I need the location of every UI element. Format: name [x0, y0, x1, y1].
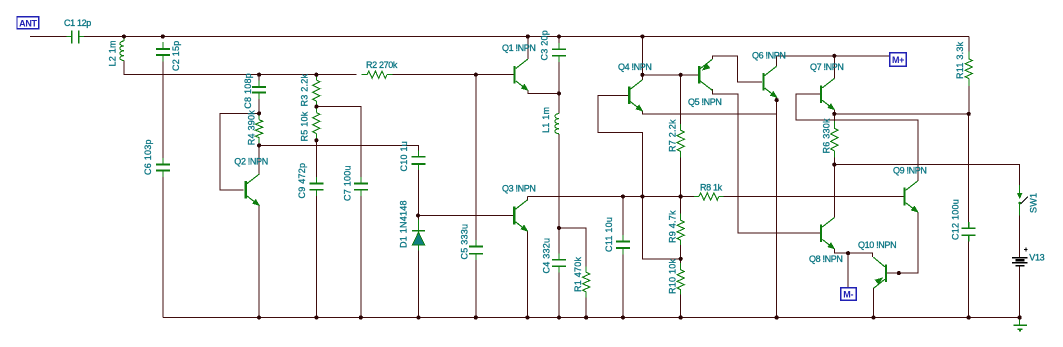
label C3 — [540, 30, 550, 61]
junction dot 30 at (360.3,317) — [359, 315, 363, 319]
label Q9 — [893, 166, 927, 176]
svg-text:C3 20p: C3 20p — [540, 30, 550, 61]
resistor R3 — [313, 76, 320, 106]
label C1 — [64, 18, 91, 28]
label R4 — [246, 110, 256, 146]
junction dot 31 at (418.0,317) — [416, 315, 420, 319]
capacitor C11 — [616, 235, 630, 254]
label R10 — [668, 258, 678, 294]
resistor R8 — [694, 193, 724, 200]
wire Q7 collector riser — [833, 56, 835, 79]
wire L1 bottom to C4 — [558, 134, 560, 259]
label SW1 — [1029, 193, 1039, 213]
transistor Q3 — [513, 200, 527, 231]
transistor Q5 — [698, 59, 712, 90]
wire R8 to Q9 base — [724, 196, 904, 198]
svg-text:Q1 !NPN: Q1 !NPN — [502, 43, 536, 53]
wire R6 bottom to SW1 — [834, 158, 1019, 186]
label L1 — [541, 107, 551, 133]
svg-text:Q2 !NPN: Q2 !NPN — [234, 156, 268, 166]
junction dot 37 at (680.2,317) — [679, 315, 683, 319]
svg-text:R4 390k: R4 390k — [246, 110, 256, 146]
wire ANT to C1 — [30, 36, 72, 38]
wire C3 bottom to node — [558, 57, 560, 94]
junction dot 25 at (833.8,164.1) — [832, 163, 836, 167]
transistor Q2 — [245, 174, 259, 205]
svg-text:Q9 !NPN: Q9 !NPN — [893, 166, 927, 176]
resistor R5 — [313, 108, 320, 139]
wire R1 bottom to bus — [585, 292, 587, 318]
transistor Q10 — [874, 257, 888, 288]
junction dot 29 at (315.9,317) — [314, 315, 318, 319]
label Q4 — [618, 62, 652, 72]
capacitor C7 — [354, 177, 368, 196]
junction dot 32 at (475.3,317) — [474, 315, 478, 319]
resistor R7 — [677, 124, 684, 158]
wire Q6 collector riser — [776, 56, 778, 66]
wire D1 to Q3 base — [419, 215, 514, 217]
resistor R10 — [677, 263, 684, 294]
wire C6 bottom to bottom bus corner — [162, 171, 164, 317]
capacitor C1 — [67, 31, 85, 44]
wire C5 column top — [475, 75, 477, 246]
junction dot 24 at (968.2,113.4) — [967, 112, 971, 116]
svg-text:M+: M+ — [892, 55, 904, 65]
node M- — [841, 288, 857, 300]
svg-text:SW1: SW1 — [1029, 193, 1039, 213]
wire Q4 base jog — [598, 95, 681, 258]
svg-text:ANT: ANT — [19, 18, 37, 28]
wire Q6 emitter to bus — [776, 97, 778, 317]
wire Q8 collector riser — [833, 165, 835, 218]
junction dot 27 at (898.3,272.6) — [897, 271, 901, 275]
junction dot 21 at (776.2,99.6) — [775, 98, 779, 102]
wire bottom bus — [163, 317, 1020, 319]
wire Q7 emitter stub — [833, 110, 835, 121]
junction dot 2 at (162.3,36) — [161, 34, 165, 38]
wire Q3 emitter to bus — [526, 231, 528, 317]
capacitor C5 — [469, 240, 483, 260]
wire C12 bottom to bus — [968, 236, 970, 317]
label Q8 — [809, 254, 843, 264]
node ANT — [17, 17, 39, 29]
wire C10 bottom to D1 — [418, 165, 420, 231]
label D1 — [399, 200, 409, 248]
wire R11 bottom — [968, 86, 970, 114]
label V13 — [1029, 252, 1044, 262]
junction dot 33 at (526.9,317) — [525, 315, 529, 319]
diode D1 — [412, 220, 425, 251]
transistor Q7 — [820, 79, 834, 110]
wire Q4 emitter run — [642, 111, 776, 114]
label R1 — [573, 256, 583, 292]
wire Q8 emitter node — [834, 249, 872, 257]
wire Q5 emitter to Q6 base — [712, 56, 762, 82]
junction dot 18 at (641.9,196.0) — [640, 194, 644, 198]
wire Q1 emitter to C3L1 node — [528, 90, 559, 93]
svg-text:R1 470k: R1 470k — [573, 256, 583, 292]
capacitor C6 — [156, 158, 170, 177]
svg-text:Q6 !NPN: Q6 !NPN — [752, 51, 786, 61]
svg-text:C6 103p: C6 103p — [143, 139, 153, 175]
svg-text:Q8 !NPN: Q8 !NPN — [809, 254, 843, 264]
wire C8-R4 junction segment — [258, 93, 260, 119]
wire Q4 collector riser — [641, 37, 643, 80]
wire C7 bottom to bus — [360, 191, 362, 318]
label Q3 — [502, 183, 536, 193]
wire R3-R5 junction — [315, 101, 317, 113]
label Q2 — [234, 156, 268, 166]
junction dot 4 at (558.5,36) — [557, 34, 561, 38]
wire Q9 emitter to Q10 collector — [899, 212, 918, 273]
svg-text:R6 330k: R6 330k — [822, 118, 832, 154]
label C10 — [399, 141, 409, 172]
svg-text:R2 270k: R2 270k — [366, 60, 398, 70]
junction dot 5 at (641.9,36) — [640, 34, 644, 38]
label C7 — [343, 165, 353, 201]
resistor R6 — [831, 121, 838, 158]
svg-text:C5 333u: C5 333u — [460, 224, 470, 260]
label R8 — [700, 182, 723, 192]
label C4 — [542, 238, 552, 274]
label R11 — [955, 41, 965, 79]
resistor R4 — [256, 115, 263, 143]
wire R3R5 mid to C7 — [316, 107, 360, 183]
wire Q7 base jog — [796, 94, 918, 181]
wire mid bus Q3 to R8 — [527, 196, 694, 198]
label R6 — [822, 118, 832, 154]
wire Q3 collector riser — [526, 197, 528, 201]
capacitor C10 — [412, 151, 426, 171]
transistor Q9 — [903, 181, 917, 212]
junction dot 28 at (258.6,317) — [257, 315, 261, 319]
label C12 — [951, 199, 961, 240]
svg-text:R5 10k: R5 10k — [300, 111, 310, 141]
label C11 — [604, 217, 614, 252]
svg-text:R11 3.3k: R11 3.3k — [955, 41, 965, 79]
wire C3 top — [558, 37, 560, 49]
wire Q10 base stub — [886, 272, 899, 274]
wire R3 top — [315, 75, 317, 80]
wire Q4Q5 base link — [642, 74, 698, 76]
wire R9 segment — [680, 197, 682, 221]
junction dot 39 at (873.1,317) — [872, 315, 876, 319]
svg-text:V13: V13 — [1029, 252, 1044, 262]
junction dot 38 at (776.2,317) — [775, 315, 779, 319]
wire R7 top — [680, 75, 682, 131]
wire R10 bottom — [680, 290, 682, 318]
wire R4 bottom to Q2 collector — [258, 138, 260, 175]
svg-text:C11 10u: C11 10u — [604, 217, 614, 252]
wire node to L1 top — [558, 93, 560, 113]
wire C11 top — [622, 197, 624, 241]
svg-text:Q3 !NPN: Q3 !NPN — [502, 183, 536, 193]
svg-text:C7 100u: C7 100u — [343, 165, 353, 201]
junction dot 40 at (968.2,317) — [967, 315, 971, 319]
capacitor C8 — [252, 81, 266, 99]
svg-text:Q5 !NPN: Q5 !NPN — [688, 97, 722, 107]
inductor L1 — [555, 114, 559, 134]
wire C11 bottom to bus — [622, 249, 624, 318]
junction dot 19 at (680.2,196.0) — [679, 194, 683, 198]
transistor Q8 — [820, 218, 834, 249]
junction dot 22 at (833.8,55.3) — [832, 54, 836, 58]
wire C5 bottom to bus — [475, 254, 477, 318]
label R3 — [300, 73, 310, 106]
label R9 — [668, 210, 678, 243]
label R7 — [668, 119, 678, 152]
junction dot 6 at (258.6,74.2) — [257, 73, 261, 77]
label C8 — [243, 73, 253, 109]
wire Q1 collector riser — [527, 37, 529, 60]
junction dot 3 at (527.3,36) — [526, 34, 530, 38]
resistor R9 — [677, 214, 684, 245]
svg-text:C8 108p: C8 108p — [243, 73, 253, 109]
junction dot 10 at (680.2,74.3) — [679, 73, 683, 77]
capacitor C2 — [156, 42, 170, 62]
label R5 — [300, 111, 310, 141]
junction dot 41 at (1019.2,317) — [1018, 315, 1022, 319]
wire C4 bottom to bus — [558, 267, 560, 318]
label L2 — [108, 40, 118, 66]
junction dot 11 at (258.6,112.9) — [257, 111, 261, 115]
svg-text:M-: M- — [843, 290, 853, 300]
junction dot 8 at (475.3,74.2) — [474, 73, 478, 77]
junction dot 1 at (123.4,36) — [122, 34, 126, 38]
wire C9 bottom to bus — [315, 191, 317, 318]
battery V13 — [1012, 248, 1028, 266]
junction dot 16 at (558.5,227.4) — [557, 226, 561, 230]
wire C12 top — [968, 114, 970, 227]
junction dot 23 at (833.8,113.4) — [832, 112, 836, 116]
wire Q2 base jog — [220, 113, 259, 189]
label Q5 — [688, 97, 722, 107]
capacitor C12 — [962, 222, 976, 242]
junction dot 13 at (258.6,144.9) — [257, 143, 261, 147]
junction dot 17 at (622.4,196.0) — [621, 194, 625, 198]
label C5 — [460, 224, 470, 260]
svg-text:D1 1N4148: D1 1N4148 — [399, 200, 409, 248]
label R2 — [366, 60, 398, 70]
inductor L2 — [120, 37, 124, 61]
svg-text:R10 10k: R10 10k — [668, 258, 678, 294]
resistor R11 — [965, 52, 972, 86]
wire Q7e node right — [834, 113, 968, 115]
svg-text:R3 2.2k: R3 2.2k — [300, 73, 310, 106]
label C9 — [297, 163, 307, 199]
svg-text:Q4 !NPN: Q4 !NPN — [618, 62, 652, 72]
wire L2 bottom to 2nd bus — [124, 61, 357, 75]
wire Q2 emitter to bus — [258, 205, 260, 317]
wire M+ feed — [777, 55, 890, 57]
ground — [1013, 318, 1026, 331]
junction dot 7 at (315.9,74.2) — [314, 73, 318, 77]
wire C8 top — [258, 75, 260, 86]
label Q1 — [502, 43, 536, 53]
junction dot 14 at (315.9,139.8) — [314, 138, 318, 142]
wire Q5 collector to Q8 base — [712, 89, 820, 233]
wire D1 bottom to bus — [418, 250, 420, 318]
wire R11 top drop — [968, 37, 970, 52]
label Q10 — [858, 240, 896, 250]
label C6 — [143, 139, 153, 175]
junction dot Q1e-C3-L1 — [557, 91, 561, 95]
wire SW1 to battery — [1019, 215, 1021, 257]
wire R5 bottom to C9 — [315, 134, 317, 183]
svg-text:R9 4.7k: R9 4.7k — [668, 210, 678, 243]
capacitor C9 — [309, 177, 323, 196]
wire C2-C6 column — [162, 57, 164, 164]
resistor R2 — [362, 71, 393, 78]
switch SW1 — [1018, 185, 1028, 215]
svg-text:C12 100u: C12 100u — [951, 199, 961, 240]
junction dot 35 at (585.7,317) — [584, 315, 588, 319]
wire R7 bottom — [680, 152, 682, 197]
svg-text:L1 1m: L1 1m — [541, 107, 551, 133]
svg-text:C4 332u: C4 332u — [542, 238, 552, 274]
svg-text:C1 12p: C1 12p — [64, 18, 91, 28]
junction dot 20 at (680.2,258.3) — [679, 257, 683, 261]
svg-text:R7 2.2k: R7 2.2k — [668, 119, 678, 152]
node M+ — [890, 53, 907, 66]
transistor Q6 — [762, 66, 776, 97]
wire Q10 emitter to bus — [873, 288, 875, 317]
svg-text:R8 1k: R8 1k — [700, 182, 723, 192]
junction dot 36 at (622.4,317) — [621, 315, 625, 319]
label Q6 — [752, 51, 786, 61]
resistor R1 — [583, 267, 590, 298]
wire M- drop — [847, 253, 849, 288]
wire R9R10 mid — [680, 240, 682, 270]
junction dot 12 at (315.9,106.1) — [314, 105, 318, 109]
svg-text:Q10 !NPN: Q10 !NPN — [858, 240, 896, 250]
label C2 — [171, 40, 181, 71]
wire R4C10 link — [259, 145, 418, 155]
svg-text:C9 472p: C9 472p — [297, 163, 307, 199]
junction dot 15 at (417.5,215.0) — [416, 213, 420, 217]
wire 2nd bus R2 to Q1 base — [393, 74, 514, 76]
junction dot 9 at (641.9,74.3) — [640, 73, 644, 77]
wire C4R1 branch — [559, 228, 586, 272]
wire battery to bus — [1019, 266, 1021, 317]
transistor Q4 — [628, 80, 642, 111]
junction dot 34 at (558.5,317) — [557, 315, 561, 319]
label Q7 — [810, 62, 844, 72]
wire top bus C1 to R11 — [79, 36, 969, 38]
svg-text:Q7 !NPN: Q7 !NPN — [810, 62, 844, 72]
transistor Q1 — [513, 59, 527, 90]
svg-text:L2 1m: L2 1m — [108, 40, 118, 66]
capacitor C4 — [552, 253, 566, 272]
junction dot 26 at (847.6,252.7) — [846, 251, 850, 255]
svg-text:C2 15p: C2 15p — [171, 40, 181, 71]
capacitor C3 — [552, 43, 566, 62]
svg-text:C10 1u: C10 1u — [399, 141, 409, 172]
